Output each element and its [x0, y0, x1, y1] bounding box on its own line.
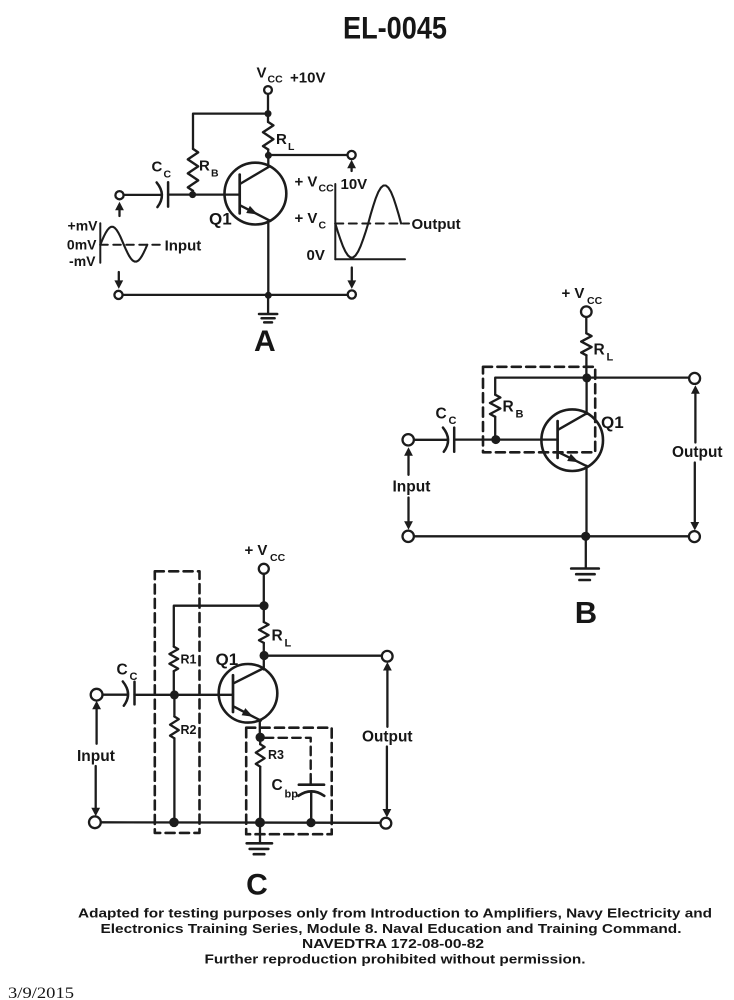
- svg-text:Q1: Q1: [601, 413, 624, 432]
- svg-text:R1: R1: [181, 653, 197, 667]
- wire base B: [454, 438, 557, 440]
- output waveform sine A: [335, 186, 401, 258]
- arrow output up C: [386, 669, 388, 727]
- label RL A: [276, 131, 295, 153]
- svg-text:bp: bp: [285, 789, 299, 801]
- junction dot emitter C: [256, 733, 265, 742]
- resistor R2: [170, 717, 179, 739]
- svg-text:C: C: [436, 406, 447, 423]
- transistor Q1 A: [225, 163, 287, 225]
- label RB B: [503, 399, 524, 421]
- ground A: [259, 295, 277, 322]
- arrow output up B: [694, 392, 696, 443]
- wire base junction to R2 C: [173, 695, 175, 717]
- capacitor Cc C: [123, 682, 135, 706]
- junction dot top C: [259, 601, 268, 610]
- svg-text:Q1: Q1: [216, 650, 239, 669]
- arrow output down A: [351, 268, 353, 283]
- junction dot top A: [265, 110, 272, 117]
- resistor R1: [169, 647, 178, 672]
- svg-text:C: C: [246, 869, 268, 902]
- terminal input top C: [91, 689, 103, 701]
- svg-text:3/9/2015: 3/9/2015: [8, 985, 74, 1000]
- junction dot collector C: [260, 651, 269, 660]
- svg-text:C: C: [319, 220, 327, 232]
- arrow input down C: [95, 766, 97, 810]
- svg-text:CC: CC: [268, 74, 284, 86]
- wire emitter vertical C: [259, 720, 261, 737]
- arrow input up C: [95, 707, 97, 743]
- svg-text:C: C: [117, 662, 128, 679]
- terminal input bottom B: [403, 531, 414, 542]
- svg-text:R: R: [199, 158, 210, 175]
- terminal Vcc A: [264, 86, 272, 94]
- svg-text:EL-0045: EL-0045: [343, 10, 447, 46]
- ground B: [571, 536, 599, 580]
- arrow input down A: [118, 272, 120, 282]
- svg-text:L: L: [288, 141, 295, 153]
- svg-text:-mV: -mV: [69, 253, 96, 269]
- svg-text:C: C: [130, 671, 138, 683]
- wire RL to collector junction C: [263, 643, 265, 656]
- bottom rail B: [409, 535, 694, 537]
- junction dot emitter rail A: [265, 292, 272, 299]
- label RB: [199, 158, 219, 180]
- svg-text:V: V: [257, 65, 267, 82]
- svg-text:A: A: [254, 325, 276, 358]
- svg-text:C: C: [272, 777, 283, 794]
- bottom rail A: [119, 294, 352, 296]
- label +Vcc output A: [295, 174, 335, 195]
- arrow input down B: [407, 498, 409, 524]
- wire collector vertical A: [267, 155, 269, 167]
- svg-text:0V: 0V: [307, 247, 325, 264]
- svg-text:+mV: +mV: [68, 217, 99, 233]
- capacitor Cbp: [298, 779, 324, 823]
- junction dot Cbp rail C: [306, 818, 315, 827]
- wire RL to collector junction A: [267, 150, 269, 156]
- terminal output bottom B: [689, 531, 700, 542]
- arrow output down B: [694, 463, 696, 525]
- junction dot base A: [189, 191, 196, 198]
- svg-text:C: C: [164, 169, 172, 181]
- wire collector vertical B: [585, 378, 587, 414]
- wire RL to collector junction B: [585, 355, 587, 377]
- svg-text:Electronics Training Series, M: Electronics Training Series, Module 8. N…: [101, 921, 682, 936]
- junction dot collector A: [265, 152, 272, 159]
- junction dot collector B: [582, 373, 591, 382]
- wire junction to R1 branch C: [174, 606, 264, 647]
- svg-text:C: C: [449, 415, 457, 427]
- svg-text:+ V: + V: [245, 542, 268, 559]
- svg-text:+ V: + V: [295, 210, 318, 227]
- svg-text:Input: Input: [165, 237, 202, 254]
- svg-text:CC: CC: [587, 295, 603, 307]
- junction dot R2 rail C: [169, 818, 179, 828]
- output waveform axis A: [335, 184, 405, 259]
- svg-text:L: L: [285, 638, 292, 650]
- svg-text:10V: 10V: [341, 176, 368, 193]
- dashed box R3 Cbp C: [246, 728, 332, 835]
- terminal Vcc B: [581, 306, 592, 317]
- svg-text:+ V: + V: [295, 174, 318, 191]
- node Vcc label A: [257, 65, 326, 87]
- terminal input A: [115, 191, 123, 199]
- svg-text:Output: Output: [672, 444, 723, 461]
- wire RB to base junction B: [494, 417, 496, 440]
- label Cc C: [117, 662, 138, 684]
- svg-text:B: B: [516, 409, 524, 421]
- wire RB to base node A: [192, 191, 194, 195]
- input waveform dashed zero line A: [100, 244, 160, 246]
- transistor Q1 C: [219, 664, 278, 723]
- wire emitter vertical B: [585, 466, 587, 537]
- terminal input top B: [403, 434, 414, 445]
- arrow output up A: [350, 166, 352, 171]
- wire top horizontal B: [495, 378, 689, 395]
- output waveform dashed Vc line A: [335, 223, 409, 225]
- wire input terminal to capacitor A: [124, 194, 162, 196]
- svg-text:NAVEDTRA 172-08-00-82: NAVEDTRA 172-08-00-82: [302, 936, 484, 951]
- svg-text:Output: Output: [362, 728, 413, 745]
- terminal output top A: [348, 151, 356, 159]
- terminal output bottom C: [381, 818, 392, 829]
- label Cbp: [272, 777, 299, 801]
- svg-text:Further reproduction prohibite: Further reproduction prohibited without …: [205, 951, 586, 966]
- terminal output top B: [689, 373, 700, 384]
- input waveform sine A: [100, 227, 147, 262]
- svg-text:+10V: +10V: [290, 70, 325, 87]
- resistor RB B: [490, 395, 500, 417]
- junction dot R3 rail C: [255, 818, 265, 828]
- wire R2 to bottom rail C: [173, 738, 175, 822]
- svg-text:R: R: [503, 399, 514, 416]
- label RL C: [272, 628, 292, 650]
- resistor RL A: [263, 122, 273, 150]
- svg-text:C: C: [152, 159, 163, 176]
- svg-text:Output: Output: [412, 216, 461, 233]
- dashed box R1 R2 C: [155, 571, 200, 833]
- label Cc A: [152, 159, 172, 181]
- wire collector junction to output terminal A: [268, 154, 347, 156]
- label Cc B: [436, 406, 457, 428]
- wire emitter vertical A: [267, 221, 269, 296]
- wire Vcc to RL B: [585, 317, 587, 333]
- wire R3 to bottom rail C: [259, 767, 261, 823]
- resistor RL C: [259, 622, 269, 643]
- svg-text:R2: R2: [181, 723, 197, 737]
- svg-text:R: R: [594, 342, 605, 359]
- resistor RB: [188, 149, 198, 191]
- label RL B: [594, 342, 614, 364]
- svg-text:CC: CC: [319, 183, 335, 195]
- label +Vc: [295, 210, 327, 232]
- wire input terminal to capacitor C: [103, 694, 127, 696]
- terminal bottom-left A: [114, 291, 122, 299]
- wire input terminal to capacitor B: [414, 439, 447, 441]
- dashed wire emitter to Cbp C: [265, 738, 311, 780]
- wire junction to RB branch A: [193, 114, 268, 149]
- terminal Vcc C: [259, 564, 269, 574]
- wire RL from junction A: [267, 114, 269, 122]
- wire emitter junction to R3 C: [259, 737, 261, 744]
- resistor RL B: [581, 333, 591, 355]
- resistor R3: [256, 744, 265, 767]
- svg-text:+ V: + V: [562, 285, 585, 302]
- svg-text:Adapted for testing purposes o: Adapted for testing purposes only from I…: [78, 906, 712, 921]
- svg-text:R: R: [272, 628, 283, 645]
- svg-text:B: B: [211, 168, 219, 180]
- input waveform axis A: [99, 223, 101, 262]
- svg-text:Input: Input: [77, 748, 115, 765]
- arrow output down C: [386, 747, 388, 812]
- junction dot base B: [491, 435, 500, 444]
- wire Vcc to junction A: [267, 94, 269, 114]
- svg-text:R: R: [276, 131, 287, 148]
- svg-text:CC: CC: [270, 552, 286, 564]
- terminal input bottom C: [89, 816, 101, 828]
- bottom rail C: [101, 821, 381, 824]
- svg-text:R3: R3: [268, 748, 284, 762]
- capacitor Cc B: [443, 428, 454, 452]
- svg-text:L: L: [607, 352, 614, 364]
- capacitor Cc A: [157, 182, 169, 207]
- node +Vcc label C: [245, 542, 286, 564]
- wire R1 to base junction C: [173, 671, 175, 695]
- wire capacitor to base C: [135, 694, 234, 696]
- terminal output top C: [382, 651, 393, 662]
- transistor Q1 B: [541, 409, 603, 471]
- svg-text:0mV: 0mV: [67, 236, 97, 252]
- node +Vcc label B: [562, 285, 603, 307]
- svg-text:Input: Input: [393, 479, 431, 496]
- dashed box B: [483, 367, 595, 453]
- ground C: [247, 823, 272, 855]
- wire collector vertical C: [263, 656, 265, 670]
- wire collector junction to output terminal C: [264, 655, 382, 657]
- wire capacitor to base A: [168, 193, 240, 195]
- arrow input up A: [118, 208, 120, 216]
- svg-text:Q1: Q1: [209, 210, 232, 229]
- wire Vcc down through junction to RL C: [263, 574, 265, 622]
- terminal bottom-right A: [348, 290, 356, 298]
- arrow input up B: [407, 454, 409, 475]
- junction dot emitter rail B: [581, 532, 590, 541]
- junction dot base C: [170, 690, 179, 699]
- svg-text:B: B: [575, 595, 597, 630]
